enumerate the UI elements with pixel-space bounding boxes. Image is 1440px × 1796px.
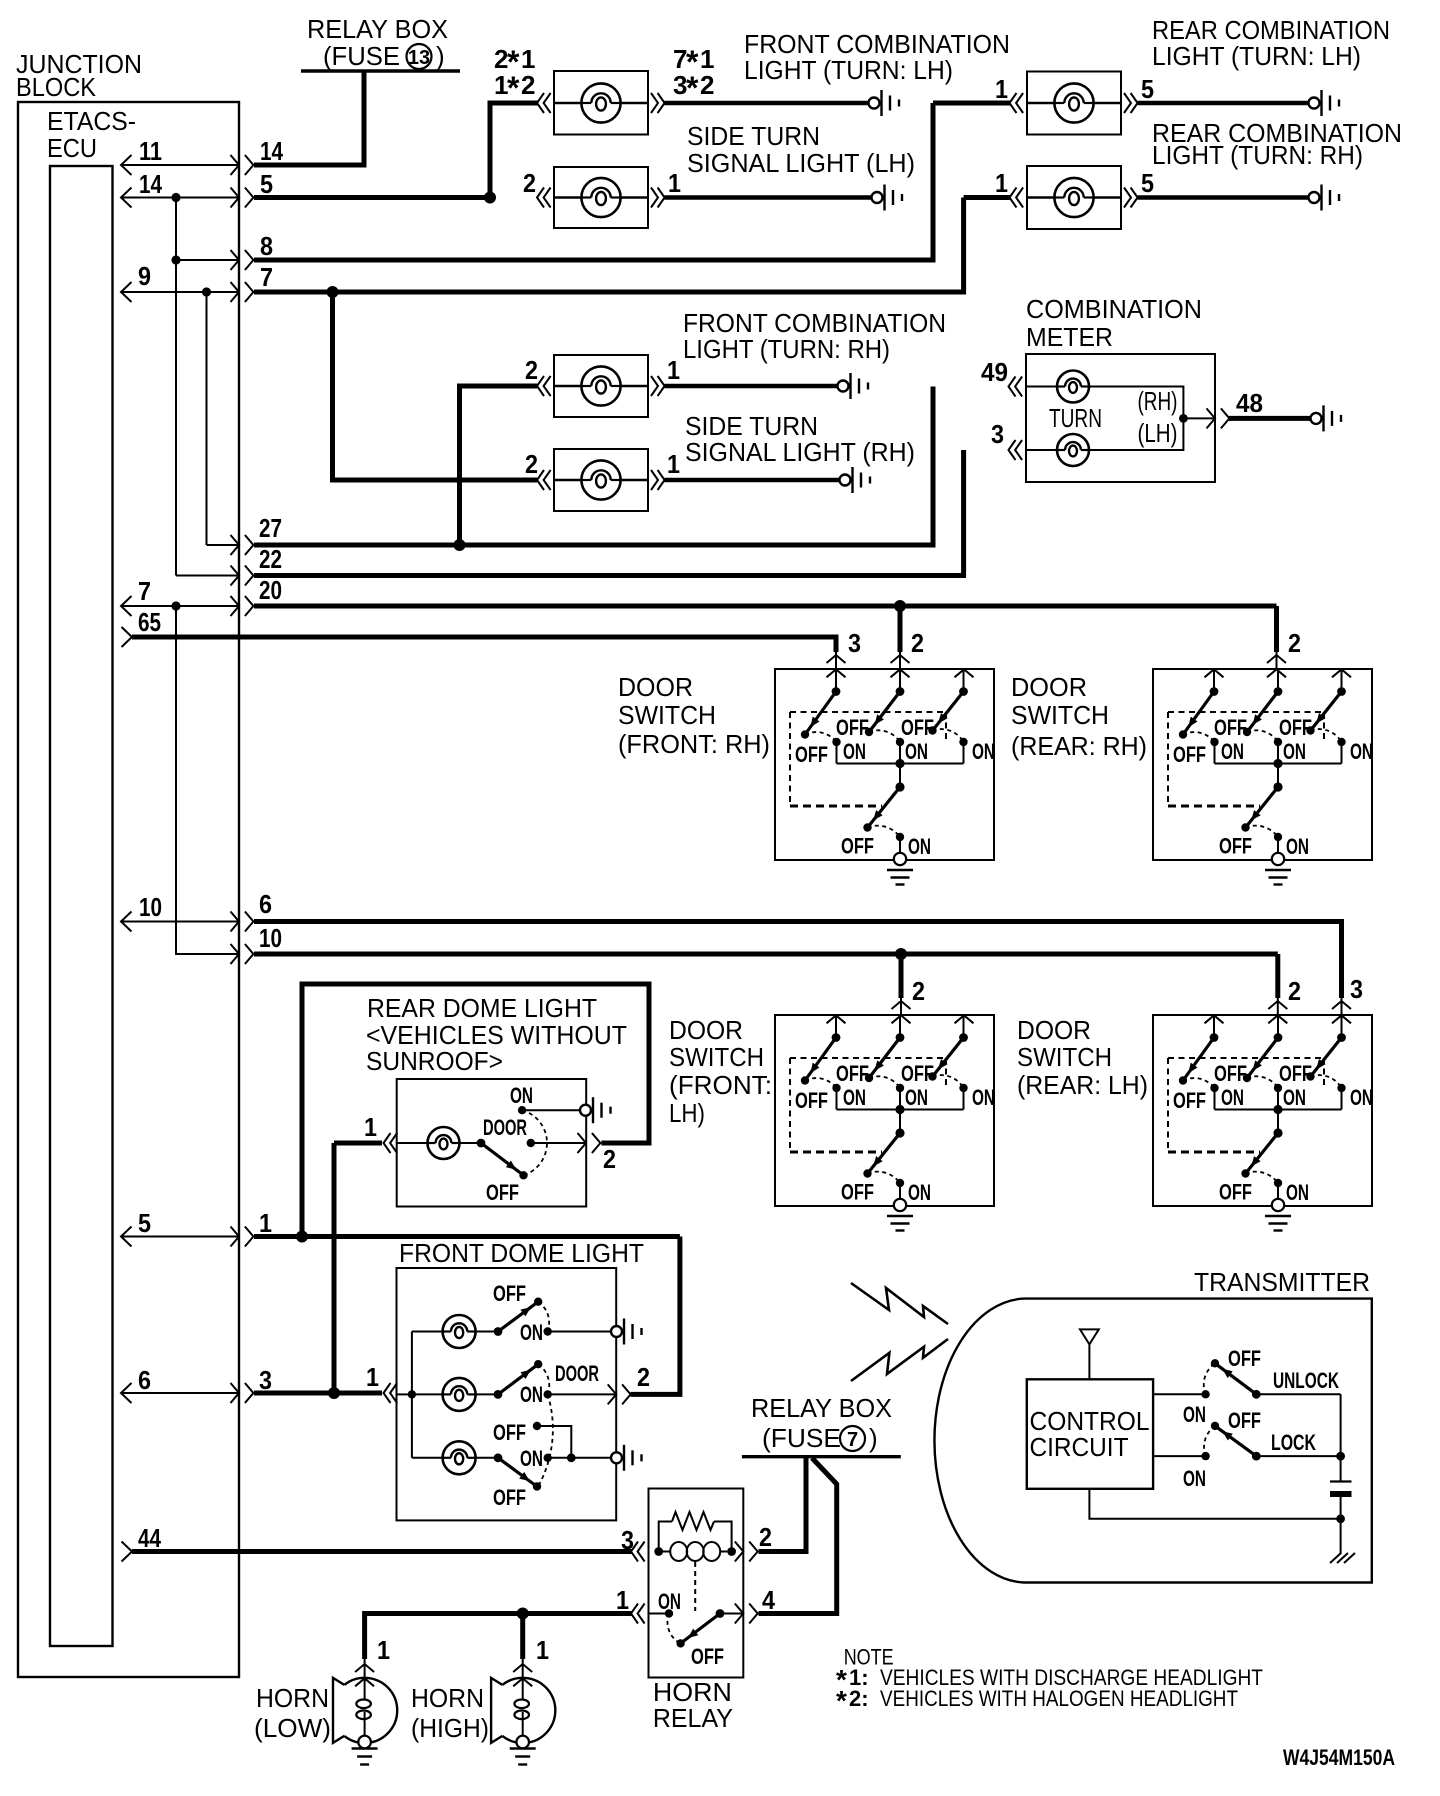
svg-text:11: 11 <box>139 136 162 166</box>
svg-text:20: 20 <box>259 575 282 605</box>
wire JB20 corner down into door switch rear RH <box>1274 606 1279 652</box>
svg-text:49: 49 <box>981 357 1008 387</box>
pin label JB 1 <box>259 1208 272 1238</box>
front dome light box <box>397 1268 617 1520</box>
svg-text:ON: ON <box>1183 1402 1206 1427</box>
svg-text:HORN: HORN <box>256 1683 329 1713</box>
svg-text:SWITCH: SWITCH <box>669 1042 764 1072</box>
svg-text:2: 2 <box>523 168 536 198</box>
svg-text:ON: ON <box>520 1320 543 1345</box>
svg-text:): ) <box>869 1423 878 1453</box>
svg-text:7: 7 <box>138 576 151 606</box>
svg-text:1: 1 <box>377 1635 390 1665</box>
wire relay box 7 to horn relay pin 4 <box>759 1458 837 1614</box>
front dome lamp 2 <box>412 1378 498 1411</box>
side turn signal light LH label <box>687 121 915 178</box>
pin label 3 horn relay <box>621 1525 634 1555</box>
door switch rear LH label <box>1017 1015 1148 1100</box>
node on pin 14 line <box>171 193 180 202</box>
connector into rear dome light <box>384 1133 398 1153</box>
svg-text:1: 1 <box>667 355 680 385</box>
meter turn lamp LH <box>1026 434 1089 466</box>
transmitter label <box>1194 1267 1370 1297</box>
front combination light LH label <box>744 29 1010 85</box>
connector out of rear dome pin 2 <box>578 1133 601 1153</box>
pin label 2 front dome <box>637 1362 650 1392</box>
combination meter label <box>1026 294 1202 352</box>
wire ECU 65 to door switch front RH <box>132 637 836 652</box>
pin label 5 rear comb LH <box>1141 74 1154 104</box>
pin label 49 <box>981 357 1008 387</box>
svg-text:SIDE TURN: SIDE TURN <box>687 121 820 151</box>
svg-text:65: 65 <box>138 607 161 637</box>
svg-text:2: 2 <box>637 1362 650 1392</box>
ground side turn signal light RH <box>840 467 871 493</box>
pin label 7*1 3*2 <box>673 44 714 106</box>
pin label JB 10 <box>259 923 282 953</box>
pin label JB 27 <box>259 513 282 543</box>
connector into side turn signal light RH <box>537 470 551 490</box>
JB pin 27 line <box>207 535 254 555</box>
pin label JB 5 <box>260 169 273 199</box>
wire down to horn high <box>520 1614 525 1660</box>
svg-text:(FUSE: (FUSE <box>323 41 400 71</box>
wire JB pin 7 to rear combination light RH <box>254 198 964 293</box>
svg-text:9: 9 <box>138 261 151 291</box>
wire rear combination LH to ground <box>1138 101 1309 105</box>
pin label 2 side turn RH <box>525 449 538 479</box>
front dome switch 3 <box>494 1453 610 1490</box>
svg-text:CIRCUIT: CIRCUIT <box>1030 1432 1129 1462</box>
pin label 48 <box>1236 388 1263 418</box>
connector out of horn relay pin 4 <box>735 1604 758 1624</box>
svg-text:ON: ON <box>520 1382 543 1407</box>
wire JB 22 to combination meter 3 <box>254 450 964 576</box>
svg-text:ECU: ECU <box>47 133 97 163</box>
wire 27 riser to front combination RH <box>460 386 538 545</box>
front dome lamp 1 <box>412 1315 498 1348</box>
connector into rear combination light RH <box>1010 188 1024 208</box>
svg-text:2: 2 <box>1288 628 1301 658</box>
svg-text:RELAY BOX: RELAY BOX <box>751 1393 892 1423</box>
pin label 14 <box>139 169 162 199</box>
junction block outline <box>18 102 239 1677</box>
pin label 2 side turn LH <box>523 168 536 198</box>
wire JB pin 5 to side turn signal LH <box>254 195 492 200</box>
svg-text:OFF: OFF <box>1228 1408 1261 1433</box>
wire JB20 down into door switch front RH <box>898 606 903 652</box>
wire front dome 2 riser <box>631 1237 680 1395</box>
front dome switch 2 <box>494 1360 616 1489</box>
pin label 1 horn high <box>536 1635 549 1665</box>
front dome internal bus <box>397 1332 417 1458</box>
svg-text:6: 6 <box>138 1365 151 1395</box>
svg-text:8: 8 <box>260 231 273 261</box>
meter labels <box>1049 386 1178 448</box>
pin label 1 horn relay <box>616 1585 629 1615</box>
side turn signal light LH lamp <box>554 167 648 228</box>
svg-text:COMBINATION: COMBINATION <box>1026 294 1202 324</box>
svg-text:13: 13 <box>408 47 430 69</box>
connector into front combination light RH <box>537 376 551 396</box>
connector into meter 49 <box>1009 377 1023 397</box>
svg-text:FRONT DOME LIGHT: FRONT DOME LIGHT <box>399 1238 644 1268</box>
svg-text:3: 3 <box>1350 974 1363 1004</box>
wire ECU9 branch down <box>206 292 208 545</box>
wire rear dome 2 output loop <box>302 984 649 1237</box>
pin label JB 7 <box>260 262 273 292</box>
pin label 1 rear comb RH <box>995 168 1008 198</box>
front dome switch 3 off contact <box>533 1422 576 1462</box>
connector out of front combination light LH <box>651 93 665 113</box>
relay box (fuse 7) bus bar <box>742 1455 901 1458</box>
front dome switch3 labels <box>493 1446 543 1510</box>
front dome switch1 labels <box>493 1281 543 1345</box>
svg-text:SWITCH: SWITCH <box>1011 700 1109 730</box>
connector pins door switch rear RH <box>1205 652 1352 677</box>
ground front combination light RH <box>838 373 869 399</box>
side turn signal light RH label <box>685 411 915 467</box>
note text <box>836 1645 1263 1717</box>
pin label 1 front dome <box>366 1362 379 1392</box>
wire JB 3 to front dome pin 1 <box>254 1391 382 1396</box>
ECU pin 7 arrow line <box>121 596 253 616</box>
svg-text:LOCK: LOCK <box>1271 1430 1316 1455</box>
rear combination light LH label <box>1152 15 1390 71</box>
side turn signal light RH lamp <box>554 449 648 511</box>
wire JB 20 to door switches <box>254 604 1277 609</box>
svg-text:1: 1 <box>995 74 1008 104</box>
svg-text:5: 5 <box>138 1208 151 1238</box>
svg-text:LIGHT (TURN: RH): LIGHT (TURN: RH) <box>1152 140 1363 170</box>
horn relay box <box>649 1489 744 1678</box>
svg-text:DOOR: DOOR <box>1017 1015 1091 1045</box>
svg-text:DOOR: DOOR <box>483 1115 527 1140</box>
pin label JB 14 <box>260 136 283 166</box>
svg-text:2: 2 <box>759 1522 772 1552</box>
pin label 5 ECU <box>138 1208 151 1238</box>
pin label 10 ECU <box>139 892 162 922</box>
svg-text:ON: ON <box>510 1083 533 1108</box>
door switch front RH label <box>618 672 770 759</box>
ground rear combination light RH <box>1309 185 1340 211</box>
svg-text:(LH): (LH) <box>1138 418 1178 448</box>
wire JB 1 to dome lights <box>254 1234 680 1239</box>
unlock switch labels <box>1183 1346 1339 1427</box>
wire to rear combination light LH <box>933 101 1010 106</box>
svg-text:2: 2 <box>525 355 538 385</box>
svg-text:14: 14 <box>260 136 283 166</box>
ECU pin 6 arrow line <box>121 1383 253 1403</box>
door switch (front RH) box <box>775 669 995 885</box>
pin label 1 rear dome <box>364 1112 377 1142</box>
node JB7 to side turn RH branch <box>327 286 339 298</box>
wire horn relay 1 to horns <box>365 1614 632 1660</box>
ETACS-ECU label <box>47 106 136 163</box>
svg-text:1: 1 <box>616 1585 629 1615</box>
svg-text:TURN: TURN <box>1049 403 1102 433</box>
node on branch at pin 8 row <box>171 255 180 264</box>
door switch (rear RH) box <box>1153 669 1373 885</box>
pin label 1 side turn LH <box>668 168 681 198</box>
svg-text:DOOR: DOOR <box>555 1361 599 1386</box>
svg-text:(FRONT:: (FRONT: <box>669 1070 772 1100</box>
svg-text:LIGHT (TURN: RH): LIGHT (TURN: RH) <box>683 334 890 364</box>
pin label JB 20 <box>259 575 282 605</box>
svg-text:TRANSMITTER: TRANSMITTER <box>1194 1267 1370 1297</box>
svg-text:10: 10 <box>259 923 282 953</box>
svg-text:LIGHT (TURN: LH): LIGHT (TURN: LH) <box>1152 41 1361 71</box>
pin label 1 front comb RH <box>667 355 680 385</box>
front combination light LH lamp <box>554 71 648 135</box>
svg-text:(HIGH): (HIGH) <box>411 1713 489 1743</box>
svg-text:44: 44 <box>138 1523 161 1553</box>
horn relay resistor <box>659 1512 732 1551</box>
meter internal wiring <box>1089 387 1215 451</box>
connector into horn relay pin 3 <box>631 1542 645 1562</box>
svg-text:HORN: HORN <box>411 1683 484 1713</box>
wire side turn LH to ground <box>665 195 872 199</box>
node JB10 branch to door switch front LH <box>895 948 907 960</box>
svg-text:4: 4 <box>762 1585 775 1615</box>
rear combination light RH label <box>1152 118 1402 170</box>
svg-text:6: 6 <box>259 889 272 919</box>
pin label 1 horn low <box>377 1635 390 1665</box>
horn (high) <box>491 1659 555 1765</box>
pin label 9 <box>138 261 151 291</box>
connector into meter 3 <box>1009 440 1023 460</box>
svg-text:ON: ON <box>520 1446 543 1471</box>
connector out of front combination RH <box>651 376 665 396</box>
pin label 2*1 1*2 <box>494 44 535 106</box>
connector into side turn signal light LH <box>537 188 551 208</box>
pin label 5 rear comb RH <box>1141 168 1154 198</box>
svg-text:1: 1 <box>995 168 1008 198</box>
wire meter 48 to ground <box>1229 416 1311 421</box>
rear combination light LH lamp <box>1027 72 1121 135</box>
wire JB 10 to door switches LH <box>254 952 1278 957</box>
ECU pin 11 arrow line <box>121 155 253 175</box>
wire ECU7 branch down to JB 10 <box>176 606 239 954</box>
JB pin 22 line <box>176 566 253 586</box>
wire fuse13 node to front combination light LH <box>484 103 538 204</box>
svg-text:LH): LH) <box>669 1098 705 1128</box>
connector into front dome light <box>384 1383 398 1403</box>
ground side turn signal light LH <box>872 185 903 211</box>
svg-text:5: 5 <box>1141 168 1154 198</box>
ground front dome lamp 3 <box>611 1445 642 1471</box>
connector into horn relay pin 1 <box>631 1604 645 1624</box>
pin label 7 ECU <box>138 576 151 606</box>
svg-text:OFF: OFF <box>493 1485 526 1510</box>
wire side turn RH to ground <box>665 478 840 482</box>
ECU pin 65 arrow <box>122 627 133 647</box>
svg-text:(RH): (RH) <box>1138 386 1178 416</box>
front dome switch2 labels <box>520 1361 599 1407</box>
svg-text:27: 27 <box>259 513 282 543</box>
wire to rear combination light RH <box>964 195 1010 200</box>
door switch (front LH) box <box>775 1015 995 1231</box>
svg-text:LIGHT (TURN: LH): LIGHT (TURN: LH) <box>744 55 953 85</box>
ground rear dome light <box>580 1097 611 1123</box>
pin label 3 door front RH <box>848 628 861 658</box>
pin label 2 door rear RH <box>1288 628 1301 658</box>
wire ECU 44 to horn relay pin 3 <box>132 1549 632 1554</box>
junction block label <box>16 49 142 102</box>
front dome switch3 off label <box>493 1420 526 1445</box>
svg-text:REAR DOME LIGHT: REAR DOME LIGHT <box>367 993 597 1023</box>
relay box (fuse 13) bus bar <box>301 69 460 72</box>
ECU pin 44 arrow <box>122 1542 133 1562</box>
connector pins door switch rear LH <box>1205 998 1352 1023</box>
rear dome light label <box>366 993 627 1076</box>
connector out of side turn signal LH <box>651 188 665 208</box>
pin label 3 meter <box>991 419 1004 449</box>
front dome switch 1 <box>494 1298 610 1336</box>
svg-text:10: 10 <box>139 892 162 922</box>
wire rear combination RH to ground <box>1138 195 1309 199</box>
svg-text:7: 7 <box>847 1429 858 1451</box>
pin label 1 rear comb LH <box>995 74 1008 104</box>
node JB1 to rear dome branch <box>296 1231 308 1243</box>
wireless signal bolts <box>851 1283 948 1381</box>
wire JB 27 to combination meter 49 <box>254 387 933 546</box>
pin label 6 ECU <box>138 1365 151 1395</box>
svg-text:3: 3 <box>848 628 861 658</box>
svg-text:(REAR: RH): (REAR: RH) <box>1011 731 1147 761</box>
connector JB10 row <box>231 944 254 964</box>
wire front combination RH to ground <box>665 384 838 388</box>
svg-text:OFF: OFF <box>493 1281 526 1306</box>
ECU pin 10 arrow line <box>121 912 253 932</box>
pin label 4 horn relay <box>762 1585 775 1615</box>
wire into rear dome pin 1 <box>334 1141 382 1146</box>
svg-text:VEHICLES WITH HALOGEN HEADLIGH: VEHICLES WITH HALOGEN HEADLIGHT <box>880 1686 1238 1711</box>
horn relay label <box>653 1677 733 1733</box>
svg-text:48: 48 <box>1236 388 1263 418</box>
svg-text:(REAR: LH): (REAR: LH) <box>1017 1070 1148 1100</box>
svg-text:5: 5 <box>1141 74 1154 104</box>
wire relay box 13 to JB pin 14 <box>254 72 364 165</box>
svg-text:1: 1 <box>667 449 680 479</box>
pin label 1 side turn RH <box>667 449 680 479</box>
relay box (fuse 13) label <box>307 14 448 71</box>
node JB20 branch to door switch front RH <box>894 600 906 612</box>
svg-text:DOOR: DOOR <box>669 1015 743 1045</box>
pin label 2 door rear LH <box>1288 976 1301 1006</box>
svg-text:SWITCH: SWITCH <box>618 700 716 730</box>
connector out of front dome pin 2 <box>608 1384 631 1404</box>
svg-text:METER: METER <box>1026 322 1113 352</box>
front combination light RH label <box>683 308 946 364</box>
svg-text:DOOR: DOOR <box>1011 672 1087 702</box>
pin label 11 <box>139 136 162 166</box>
rear dome lamp <box>397 1127 460 1159</box>
horn high label <box>411 1683 489 1743</box>
wire relay box 7 to horn relay pin 2 <box>759 1458 807 1552</box>
svg-text:W4J54M150A: W4J54M150A <box>1283 1745 1395 1770</box>
svg-text:(LOW): (LOW) <box>254 1713 331 1743</box>
pin label JB 22 <box>259 544 282 574</box>
lock switch labels <box>1183 1408 1316 1491</box>
control circuit label <box>1030 1406 1150 1462</box>
wire JB7 down to side turn signal RH <box>333 292 538 480</box>
wire JB10 down into door switch front LH <box>899 954 904 998</box>
capacitor <box>1330 1482 1352 1495</box>
transmitter right bus <box>1336 1394 1345 1481</box>
node on pin 9 line <box>202 287 211 296</box>
connector out of horn relay pin 2 <box>735 1542 758 1562</box>
connector out of rear combination RH <box>1124 188 1138 208</box>
connector out of meter 48 <box>1207 408 1230 428</box>
svg-text:DOOR: DOOR <box>618 672 693 702</box>
svg-text:ON: ON <box>1183 1466 1206 1491</box>
connector out of side turn RH <box>651 470 665 490</box>
ground front dome lamp 1 <box>611 1319 642 1345</box>
svg-text:7: 7 <box>260 262 273 292</box>
svg-text:2: 2 <box>911 628 924 658</box>
svg-text:22: 22 <box>259 544 282 574</box>
ground rear combination light LH <box>1309 90 1340 116</box>
svg-text:2: 2 <box>1288 976 1301 1006</box>
ECU pin 14 arrow line <box>121 188 253 208</box>
pin label 2 door front LH <box>912 976 925 1006</box>
svg-text:2: 2 <box>912 976 925 1006</box>
pin label 2 horn relay <box>759 1522 772 1552</box>
document number <box>1283 1745 1395 1770</box>
ECU pin 5 arrow line <box>121 1227 253 1247</box>
svg-text:2: 2 <box>525 449 538 479</box>
wire front combination LH to ground <box>665 101 869 105</box>
pin label 44 <box>138 1523 161 1553</box>
svg-text:2: 2 <box>603 1144 616 1174</box>
rear combination light RH lamp <box>1027 166 1121 229</box>
front dome lamp 3 <box>412 1441 498 1474</box>
front dome light label <box>399 1238 644 1268</box>
door switch (rear LH) box <box>1153 1015 1373 1231</box>
svg-text:1: 1 <box>668 168 681 198</box>
control circuit box <box>1027 1379 1153 1489</box>
svg-text:1: 1 <box>536 1635 549 1665</box>
connector pins door switch front LH <box>827 998 974 1023</box>
node front dome pin 1 <box>328 1387 340 1399</box>
node 27 to front comb RH riser <box>454 539 466 551</box>
transmitter outline <box>934 1299 1371 1583</box>
horn relay switch <box>649 1609 744 1648</box>
wire JB 6 to door switch rear LH pin 3 <box>254 922 1342 999</box>
wire capacitor to ground node <box>1336 1497 1345 1523</box>
svg-text:OFF: OFF <box>1228 1346 1261 1371</box>
connector out of rear combination LH <box>1124 93 1138 113</box>
door switch front LH label <box>669 1015 772 1128</box>
pin label 2 rear dome <box>603 1144 616 1174</box>
ECU pin 9 arrow line <box>121 282 253 302</box>
pin label 3 door rear LH <box>1350 974 1363 1004</box>
pin label JB 3 <box>259 1365 272 1395</box>
svg-text:): ) <box>436 41 445 71</box>
node on pin 7 line <box>171 601 180 610</box>
chassis ground transmitter <box>1330 1519 1355 1563</box>
svg-text:OFF: OFF <box>691 1644 724 1669</box>
wire JB10 corner down into door switch rear LH <box>1275 954 1280 998</box>
pin label 2 front comb RH <box>525 355 538 385</box>
svg-text:SUNROOF>: SUNROOF> <box>366 1046 503 1076</box>
svg-text:3: 3 <box>991 419 1004 449</box>
lock switch <box>1153 1422 1341 1461</box>
wire JB pin 8 to rear combination light LH <box>254 103 933 260</box>
wire control circuit to ground node <box>1089 1489 1340 1519</box>
relay box (fuse 7) label <box>751 1393 892 1453</box>
